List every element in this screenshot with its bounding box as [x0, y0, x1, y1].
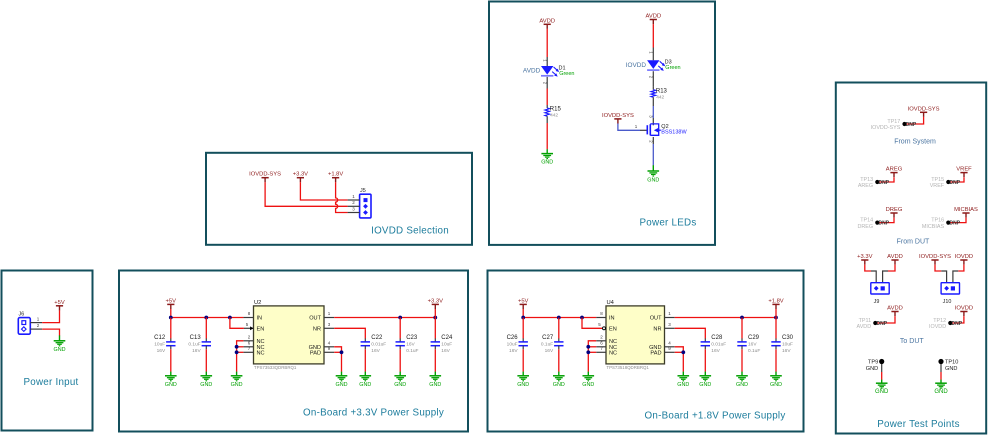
svg-text:AREG: AREG: [886, 167, 903, 173]
frame Power Input: [2, 271, 93, 431]
resistor R13: [651, 88, 668, 100]
svg-text:GND: GND: [165, 382, 177, 388]
svg-text:IOVDD: IOVDD: [955, 254, 973, 260]
wire AVDD to D3: [652, 24, 654, 47]
svg-text:16V: 16V: [509, 348, 518, 354]
junction rail C29: [740, 316, 744, 320]
svg-text:GND: GND: [231, 382, 243, 388]
J5 pin 1: [348, 199, 360, 201]
wire U4 NC pin7 stub: [588, 351, 596, 353]
junction GND/PAD: [340, 350, 344, 354]
svg-text:16V: 16V: [782, 348, 791, 354]
svg-text:+1.8V: +1.8V: [328, 172, 343, 178]
svg-text:IOVDD-SYS: IOVDD-SYS: [249, 172, 281, 178]
svg-text:GND: GND: [200, 382, 212, 388]
Q2 gate pin lead: [640, 129, 647, 131]
U4 pin 8 IN: [596, 317, 606, 319]
wire: [588, 341, 596, 372]
svg-text:16V: 16V: [441, 348, 450, 354]
wire: [888, 265, 895, 271]
svg-text:NC: NC: [609, 351, 617, 357]
ground (C26): [517, 372, 529, 388]
wire NC pin6 stub: [237, 346, 244, 348]
wire NC pin7 stub: [237, 351, 244, 353]
wire: [334, 328, 365, 338]
wire +5V rail: [170, 309, 172, 318]
svg-text:IN: IN: [609, 316, 615, 322]
svg-text:IOVDD-SYS: IOVDD-SYS: [602, 113, 634, 119]
ground (C27): [553, 372, 565, 388]
D1 pin 2 lead: [546, 77, 548, 89]
svg-text:GND: GND: [866, 366, 878, 372]
J5 pin 2: [348, 205, 360, 207]
svg-text:16V: 16V: [748, 342, 757, 348]
U2 pin 5 EN: [244, 327, 254, 329]
svg-text:442: 442: [656, 94, 664, 100]
power +3.3V (selection): [293, 172, 308, 183]
U4 pin 9 PAD: [665, 351, 675, 353]
power +1.8V (supply out): [768, 298, 783, 309]
svg-text:10uF: 10uF: [507, 342, 518, 348]
ground (C12): [165, 372, 177, 388]
LED D3: [647, 60, 680, 71]
wire: [883, 271, 888, 283]
svg-text:+5V: +5V: [166, 298, 177, 304]
svg-text:GND: GND: [394, 382, 406, 388]
connector J9: [871, 283, 889, 305]
ground (TP10): [934, 380, 948, 396]
J6 pin 2: [30, 328, 42, 330]
U4 pin 7 NC: [596, 351, 606, 353]
svg-text:J10: J10: [943, 299, 952, 305]
R15 top pin: [546, 105, 548, 108]
wire: [950, 177, 964, 182]
wire C22 to GND: [364, 349, 366, 372]
wire +3.3V stem: [434, 309, 436, 318]
wire: [958, 265, 964, 271]
connector J5: [360, 188, 371, 218]
svg-text:GND: GND: [582, 382, 594, 388]
test point TP14: [858, 218, 890, 230]
wire: [877, 316, 895, 323]
svg-text:Power LEDs: Power LEDs: [640, 218, 697, 229]
wire input rail 3.3V: [171, 317, 244, 319]
U4 pin 4 GND: [665, 346, 675, 348]
svg-text:C24: C24: [441, 335, 453, 341]
U2 pin 7 NC: [243, 351, 253, 353]
junction rail C24: [433, 316, 437, 320]
wire C26 drop: [522, 318, 524, 339]
wire C26 to GND: [522, 349, 524, 372]
capacitor C29: [737, 335, 760, 354]
ground (C22): [359, 372, 371, 388]
svg-text:Power Input: Power Input: [23, 377, 78, 388]
wire R13 to Q2 drain: [652, 106, 654, 118]
junction rail C26: [521, 316, 525, 320]
wire +5V rail 1.8V: [522, 309, 524, 318]
TP9 lead: [881, 364, 883, 372]
svg-text:GND: GND: [875, 389, 889, 395]
junction rail C23: [398, 316, 402, 320]
power AVDD (TP11): [887, 306, 903, 317]
svg-text:GND: GND: [553, 382, 565, 388]
U2 pin 2 NC: [243, 340, 253, 342]
wire: [618, 124, 640, 131]
wire: [230, 318, 244, 329]
svg-text:IOVDD: IOVDD: [929, 324, 946, 330]
svg-text:DNP: DNP: [879, 221, 890, 227]
test point TP17: [871, 119, 917, 131]
TP10 lead: [940, 364, 942, 372]
power +5V (1.8V supply): [518, 298, 529, 309]
R13 top pin: [652, 87, 654, 90]
R13 bottom pin: [652, 97, 654, 106]
svg-text:C13: C13: [190, 335, 202, 341]
connector J6: [18, 311, 30, 334]
frame On-Board +3.3V Power Supply: [119, 271, 468, 432]
wire OUT rail 3.3V: [334, 317, 435, 319]
wire OUT rail 1.8V: [675, 317, 776, 319]
svg-text:MICBIAS: MICBIAS: [954, 207, 978, 213]
svg-text:R15: R15: [550, 107, 562, 113]
wire: [871, 271, 876, 283]
svg-text:+3.3V: +3.3V: [428, 298, 443, 304]
test point TP16: [922, 218, 961, 230]
svg-text:16V: 16V: [371, 348, 380, 354]
wire: [675, 328, 706, 338]
LED D1: [541, 65, 574, 76]
svg-text:PAD: PAD: [650, 351, 661, 357]
svg-text:TP11: TP11: [859, 318, 871, 324]
svg-text:0.1uF: 0.1uF: [541, 342, 553, 348]
wire C27 drop: [558, 318, 560, 339]
svg-text:C23: C23: [406, 335, 418, 341]
svg-text:IOVDD-SYS: IOVDD-SYS: [908, 106, 940, 112]
power DREG: [886, 207, 903, 218]
svg-text:C28: C28: [711, 335, 723, 341]
wire C13 to GND: [205, 349, 207, 372]
svg-text:C12: C12: [154, 335, 166, 341]
junction NC7: [235, 350, 239, 354]
ground (D1): [541, 149, 553, 165]
frame On-Board +1.8V Power Supply: [488, 271, 804, 432]
capacitor C27: [541, 335, 564, 354]
svg-text:J9: J9: [874, 299, 880, 305]
svg-text:IOVDD-SYS: IOVDD-SYS: [871, 125, 901, 131]
svg-text:AVDD: AVDD: [887, 254, 903, 260]
svg-text:+1.8V: +1.8V: [768, 298, 783, 304]
transistor Q2 BSS138W: [647, 124, 687, 136]
capacitor C12: [154, 335, 175, 354]
svg-text:10uF: 10uF: [782, 342, 793, 348]
svg-text:GND: GND: [945, 366, 957, 372]
U2 pin 1 OUT: [324, 317, 334, 319]
capacitor C13: [188, 335, 211, 354]
power AVDD (D3): [645, 14, 661, 25]
wire C12 drop: [170, 318, 172, 339]
junction rail C30: [774, 316, 778, 320]
wire R15 to GND: [546, 123, 548, 149]
wire: [42, 310, 59, 322]
wire C23 to GND: [399, 349, 401, 372]
svg-text:+3.3V: +3.3V: [293, 172, 308, 178]
svg-text:16V: 16V: [406, 342, 415, 348]
svg-text:IOVDD Selection: IOVDD Selection: [371, 225, 449, 236]
svg-text:NR: NR: [653, 327, 661, 333]
ground (C24): [429, 372, 441, 388]
svg-text:DNP: DNP: [906, 122, 917, 128]
capacitor C23: [396, 335, 419, 354]
svg-text:16V: 16V: [192, 348, 201, 354]
svg-text:GND: GND: [647, 177, 659, 183]
wire: [879, 218, 894, 223]
svg-text:DNP: DNP: [877, 321, 888, 327]
test point TP12: [929, 318, 963, 330]
svg-text:OUT: OUT: [650, 316, 662, 322]
capacitor C28: [701, 335, 727, 354]
D3 pin 2 lead: [652, 71, 654, 86]
wire: [675, 347, 684, 372]
power +3.3V (J9): [857, 254, 872, 265]
test point TP11: [857, 318, 888, 330]
svg-text:GND: GND: [699, 382, 711, 388]
wire input rail 1.8V box: [523, 317, 596, 319]
wire: [906, 117, 924, 124]
svg-text:+5V: +5V: [518, 298, 529, 304]
ground (C28): [699, 372, 711, 388]
svg-text:0.01uF: 0.01uF: [711, 342, 726, 348]
svg-text:AREG: AREG: [858, 183, 873, 189]
svg-text:16V: 16V: [711, 348, 720, 354]
power IOVDD (TP12): [955, 306, 973, 317]
svg-text:0.1uF: 0.1uF: [188, 342, 200, 348]
Q2 drain pin lead: [652, 118, 654, 125]
frame IOVDD Selection: [206, 153, 472, 245]
wire: [265, 182, 348, 206]
junction rail C27: [557, 316, 561, 320]
ground (U4 NC): [582, 372, 594, 388]
svg-text:AVDD: AVDD: [645, 14, 661, 20]
svg-text:TP12: TP12: [933, 318, 946, 324]
capacitor C26: [507, 335, 528, 354]
power IOVDD-SYS (LED): [602, 113, 634, 124]
power AREG: [886, 167, 903, 178]
svg-text:0.1uF: 0.1uF: [406, 348, 418, 354]
junction rail C13: [204, 316, 208, 320]
svg-text:442: 442: [550, 113, 558, 119]
power IOVDD-SYS (TP17): [908, 106, 940, 117]
svg-text:GND: GND: [336, 382, 348, 388]
svg-text:16V: 16V: [157, 348, 166, 354]
test point TP10: [938, 359, 958, 372]
wire: [935, 265, 941, 271]
wire: [334, 347, 341, 372]
J6 pin 1: [30, 322, 42, 324]
svg-text:0.01uF: 0.01uF: [371, 342, 386, 348]
capacitor C22: [361, 335, 387, 354]
svg-text:To DUT: To DUT: [900, 338, 924, 345]
wire: [941, 271, 946, 283]
U2 pin 4 GND: [324, 346, 334, 348]
wire C28 to GND: [704, 349, 706, 372]
D3 pin 1 lead: [652, 48, 654, 61]
U4 pin 5 EN: [603, 327, 606, 330]
wire: [879, 177, 894, 182]
junction NC6: [235, 345, 239, 349]
U4 pin 6 NC: [596, 346, 606, 348]
wire C24 to GND: [434, 349, 436, 372]
R15 bottom pin: [546, 116, 548, 123]
U2 pin 9 PAD: [324, 351, 334, 353]
svg-text:GND: GND: [359, 382, 371, 388]
svg-text:U4: U4: [607, 300, 615, 306]
svg-text:TPS73518QDRBRQ1: TPS73518QDRBRQ1: [606, 365, 649, 370]
Q2 source pin lead: [652, 137, 654, 144]
ground (C23): [394, 372, 406, 388]
svg-text:AVDD: AVDD: [539, 18, 555, 24]
svg-text:BSS138W: BSS138W: [661, 130, 687, 136]
wire U4 NC pin6 stub: [588, 346, 596, 348]
ground (C30): [770, 372, 782, 388]
junction rail EN branch U4: [580, 316, 584, 320]
svg-text:Power Test Points: Power Test Points: [877, 419, 959, 430]
wire Q2 source to GND: [652, 144, 654, 165]
svg-text:C27: C27: [542, 335, 554, 341]
U2 pin 3 NR: [324, 327, 334, 329]
ground (U4 pad): [677, 372, 689, 388]
svg-text:NC: NC: [257, 351, 265, 357]
wire C29 to GND: [741, 349, 743, 372]
U2 pin 6 NC: [243, 346, 253, 348]
svg-text:IOVDD: IOVDD: [626, 62, 647, 69]
svg-text:VREF: VREF: [956, 167, 972, 173]
svg-text:J5: J5: [360, 188, 366, 194]
power VREF: [956, 167, 972, 178]
U4 pin 2 NC: [596, 340, 606, 342]
capacitor C24: [431, 335, 453, 354]
power MICBIAS: [954, 207, 978, 218]
ground (TP9): [875, 380, 889, 396]
wire C12 to GND: [170, 349, 172, 372]
wire: [865, 265, 871, 271]
op-amp U4 body: [606, 300, 665, 370]
svg-text:From DUT: From DUT: [897, 239, 930, 246]
wire C30 drop: [775, 318, 777, 339]
svg-text:MICBIAS: MICBIAS: [922, 224, 945, 230]
svg-text:TPS73533QDRBRQ1: TPS73533QDRBRQ1: [254, 365, 297, 370]
svg-text:On-Board +1.8V Power Supply: On-Board +1.8V Power Supply: [645, 411, 786, 422]
svg-text:Green: Green: [665, 65, 680, 71]
svg-text:On-Board +3.3V Power Supply: On-Board +3.3V Power Supply: [303, 408, 444, 419]
svg-text:GND: GND: [677, 382, 689, 388]
svg-text:DREG: DREG: [858, 224, 874, 230]
svg-text:C29: C29: [748, 335, 760, 341]
ground (C13): [200, 372, 212, 388]
ground (Q2): [647, 165, 659, 183]
svg-text:C26: C26: [507, 335, 519, 341]
power +1.8V (selection): [328, 172, 343, 183]
wire C29 drop: [741, 318, 743, 339]
wire C30 to GND: [775, 349, 777, 372]
resistor R15: [545, 107, 562, 119]
svg-text:IOVDD: IOVDD: [955, 306, 973, 312]
U4 pin 1 OUT: [665, 317, 675, 319]
svg-text:C22: C22: [371, 335, 383, 341]
wire U4 PAD stub: [675, 351, 684, 353]
svg-text:IN: IN: [257, 316, 263, 322]
power AVDD (D1): [539, 18, 555, 29]
capacitor C30: [771, 335, 793, 354]
wire PAD stub: [334, 351, 341, 353]
svg-text:TP13: TP13: [860, 177, 873, 183]
svg-text:DNP: DNP: [950, 221, 961, 227]
svg-text:DNP: DNP: [952, 321, 963, 327]
svg-text:From System: From System: [894, 139, 936, 146]
wire +1.8V to J5 pin3 (with hops): [336, 182, 348, 212]
svg-text:GND: GND: [770, 382, 782, 388]
test point TP9: [866, 359, 885, 372]
svg-text:TP15: TP15: [931, 177, 944, 183]
svg-text:TP14: TP14: [860, 218, 873, 224]
wire: [950, 218, 966, 223]
svg-text:16V: 16V: [545, 348, 554, 354]
svg-text:VREF: VREF: [930, 183, 945, 189]
svg-text:EN: EN: [257, 327, 265, 333]
power +5V (input): [54, 300, 65, 311]
frame Power LEDs: [489, 2, 715, 245]
svg-text:OUT: OUT: [309, 316, 321, 322]
wire: [952, 316, 964, 323]
svg-text:GND: GND: [541, 160, 553, 166]
wire +1.8V stem: [775, 309, 777, 318]
wire C13 drop: [205, 318, 207, 339]
svg-text:AVDD: AVDD: [887, 306, 903, 312]
svg-text:AVDD: AVDD: [857, 324, 872, 330]
svg-text:Green: Green: [559, 71, 574, 77]
svg-text:R13: R13: [656, 88, 668, 94]
svg-text:GND: GND: [54, 347, 66, 353]
svg-text:GND: GND: [736, 382, 748, 388]
junction U4 GND/PAD: [681, 350, 685, 354]
svg-text:U2: U2: [254, 300, 261, 306]
U2 pin 8 IN: [243, 317, 253, 319]
junction U4 NC6: [586, 345, 590, 349]
D1 pin 1 lead: [546, 57, 548, 66]
wire AVDD to D1: [546, 29, 548, 57]
svg-text:GND: GND: [934, 389, 948, 395]
power IOVDD (J10): [955, 254, 973, 265]
junction rail EN branch: [228, 316, 232, 320]
wire: [42, 329, 59, 336]
svg-text:J6: J6: [19, 311, 25, 317]
ground (U2 NC): [231, 372, 243, 388]
svg-text:0.1uF: 0.1uF: [748, 348, 760, 354]
svg-text:TP16: TP16: [931, 218, 944, 224]
svg-text:GND: GND: [517, 382, 529, 388]
wire: [237, 341, 244, 372]
wire: [953, 271, 958, 283]
svg-text:TP9: TP9: [868, 359, 878, 365]
U4 pin 3 NR: [665, 327, 675, 329]
wire D1 to R15: [546, 89, 548, 106]
power IOVDD-SYS (selection): [249, 172, 281, 183]
svg-text:DNP: DNP: [879, 180, 890, 186]
test point TP15: [930, 177, 961, 189]
svg-text:NR: NR: [313, 327, 321, 333]
svg-text:IOVDD-SYS: IOVDD-SYS: [919, 254, 951, 260]
op-amp U2 body: [254, 300, 325, 370]
power IOVDD-SYS (J10): [919, 254, 951, 265]
